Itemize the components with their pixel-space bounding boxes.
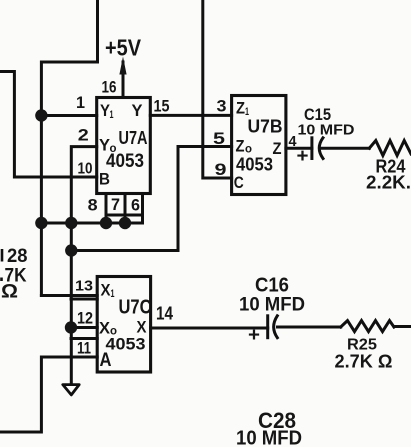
svg-text:4053: 4053 (236, 155, 273, 175)
junction dot bus A / rail (35, 217, 47, 229)
svg-text:Ω: Ω (1, 282, 18, 303)
capacitor C16 curved plate (274, 316, 278, 338)
capacitor C16 positive plate (266, 316, 269, 338)
svg-text:10: 10 (78, 161, 93, 178)
svg-text:o: o (245, 142, 252, 156)
svg-text:C16: C16 (255, 275, 289, 297)
+5V arrow stem (122, 62, 125, 98)
pin box bottoms 7 and 6 (106, 214, 143, 217)
svg-text:Y: Y (132, 101, 144, 120)
pin 8 stub (105, 194, 108, 224)
svg-text:5: 5 (213, 129, 225, 148)
svg-text:3: 3 (217, 97, 227, 116)
pin 12 box top (71, 298, 97, 301)
wire pin 1 Y1 (41, 114, 96, 117)
wire node Z0 link from bus B to U7B pin 5 (71, 147, 231, 251)
svg-text:2.2K.: 2.2K. (366, 173, 411, 193)
svg-text:15: 15 (154, 97, 170, 116)
wire pin 11 A from left edge (0, 357, 97, 432)
wire rail pins 8-7-6 (41, 222, 142, 225)
wire U7B pin 4 Z to C15 (286, 147, 312, 150)
svg-text:+5V: +5V (105, 35, 142, 61)
junction dot bus B / rail (65, 217, 77, 229)
svg-text:U7A: U7A (119, 128, 148, 148)
svg-text:U7B: U7B (248, 117, 283, 137)
wire C16 to R25 (278, 326, 341, 329)
svg-text:1: 1 (110, 109, 114, 121)
svg-text:9: 9 (215, 160, 227, 179)
svg-text:C: C (234, 173, 244, 192)
resistor R24 zigzag (369, 141, 411, 156)
clipped R of R28 at left edge (1, 249, 4, 262)
svg-text:13: 13 (75, 278, 93, 295)
svg-text:Z: Z (236, 137, 245, 156)
svg-text:Z: Z (236, 99, 245, 118)
svg-text:2.7K Ω: 2.7K Ω (335, 352, 393, 372)
junction dot bus B / pin 12 (65, 321, 77, 333)
pin 7 stub (124, 194, 127, 224)
pin 11 box top (71, 337, 97, 340)
junction dot bus A / pin 1 (35, 109, 47, 121)
wire bus A from top edge down left side to U7C pin 13 (41, 0, 97, 296)
wire pin 12 X0 (71, 326, 97, 329)
svg-text:2: 2 (78, 126, 89, 145)
capacitor C15 positive plate (310, 138, 313, 159)
svg-text:16: 16 (102, 78, 117, 97)
svg-text:4053: 4053 (106, 151, 144, 172)
svg-text:Z: Z (273, 139, 282, 158)
svg-text:6: 6 (131, 196, 140, 215)
svg-text:A: A (100, 350, 112, 371)
junction dot pin 7 / rail (119, 217, 131, 229)
resistor R25 zigzag (341, 321, 394, 332)
clipped decimal of 4.7K at left edge (0, 278, 3, 282)
svg-text:1: 1 (76, 93, 85, 112)
svg-text:+: + (248, 325, 260, 346)
svg-text:14: 14 (156, 304, 173, 324)
svg-text:10 MFD: 10 MFD (298, 122, 355, 139)
svg-text:U7C: U7C (119, 297, 152, 319)
svg-text:1: 1 (111, 288, 115, 300)
ground symbol (63, 385, 79, 395)
wire R25 to right edge (394, 325, 411, 328)
svg-text:7: 7 (111, 195, 120, 214)
svg-text:+: + (297, 146, 309, 167)
junction dot pin 8 / rail (100, 217, 112, 229)
svg-text:28: 28 (7, 246, 28, 267)
junction dot bus B / Z0 link (65, 244, 77, 256)
wire U7C pin 14 X to C16 (151, 327, 268, 330)
svg-text:4053: 4053 (106, 335, 146, 354)
pin 6 stub (141, 194, 144, 224)
wire C15 to R24 (322, 147, 369, 150)
wire pin 2 Y0 stub and bus B down to ground (71, 147, 96, 384)
svg-text:B: B (99, 170, 110, 189)
svg-text:12: 12 (77, 309, 93, 328)
capacitor C15 curved plate (319, 138, 323, 159)
svg-text:10 MFD: 10 MFD (239, 295, 305, 316)
wire pin 13 X1 (41, 294, 97, 297)
+5V arrowhead (119, 57, 126, 75)
svg-text:8: 8 (88, 196, 98, 215)
wire U7A pin 15 Y to U7B pin 3 Z1 (150, 114, 231, 117)
wire from top edge to U7B pin 9 C (203, 0, 232, 178)
wire from left edge to U7A pin 10 B (0, 72, 97, 178)
svg-text:11: 11 (77, 339, 91, 358)
svg-text:X: X (101, 281, 112, 300)
IC U7B box outline (232, 96, 286, 195)
svg-text:10 MFD: 10 MFD (236, 428, 302, 447)
IC U7A box outline (97, 98, 151, 194)
IC U7C box outline (97, 277, 150, 373)
